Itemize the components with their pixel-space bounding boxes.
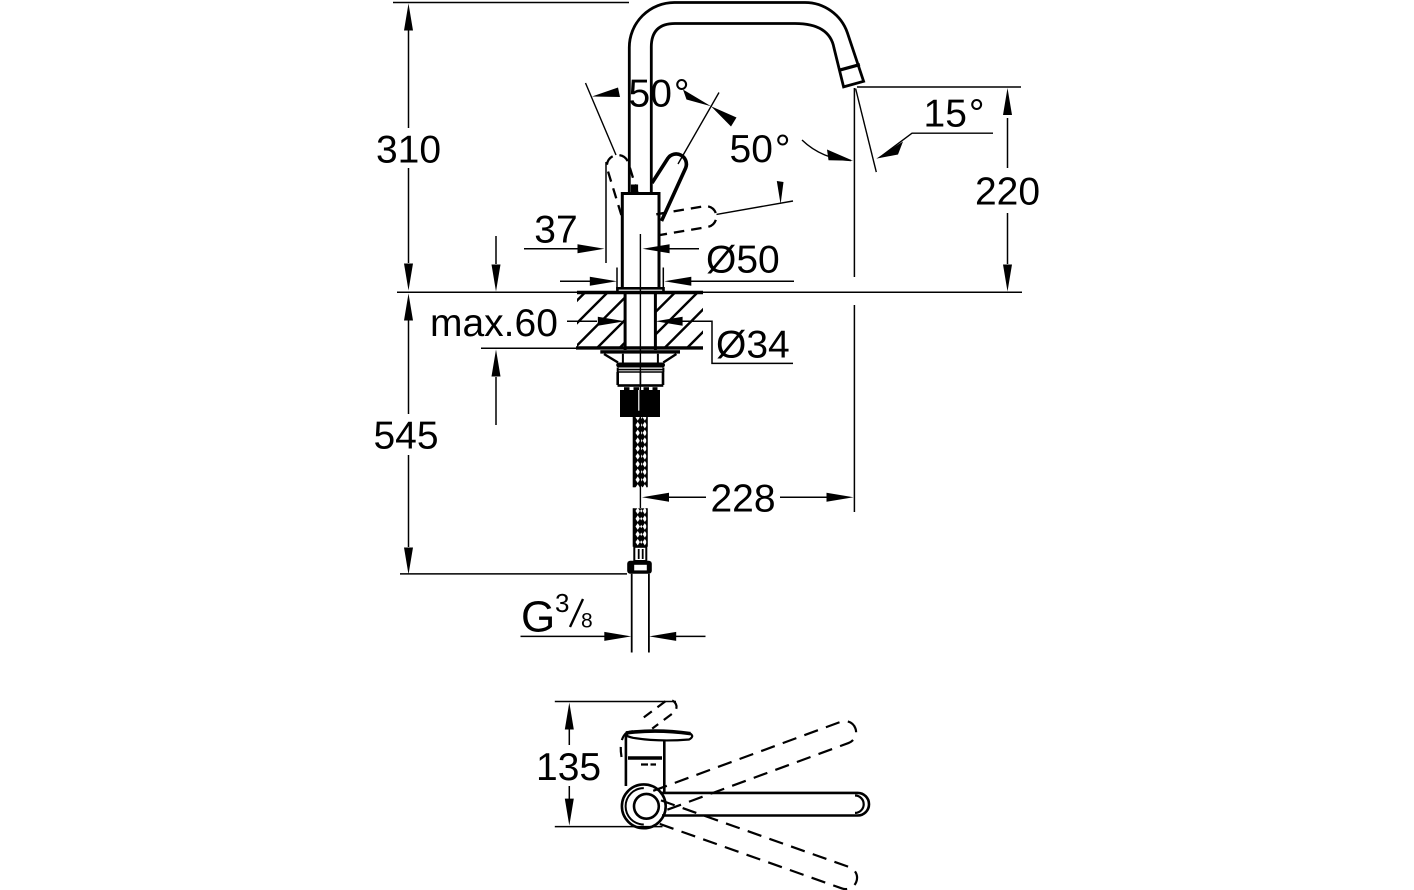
svg-text:15°: 15° bbox=[924, 92, 985, 135]
top view spout arm dashed swivel up position bbox=[653, 718, 859, 812]
top view spout hub circles bbox=[622, 784, 666, 828]
svg-text:220: 220 bbox=[975, 171, 1040, 214]
top view spout arm, solid bbox=[660, 793, 869, 816]
dimension max.60 counter thickness arrows bbox=[492, 236, 501, 425]
svg-text:310: 310 bbox=[376, 129, 441, 172]
angle 50 degrees handle swing left annotation bbox=[586, 83, 737, 164]
dimension line for G3/8 thread bbox=[521, 632, 706, 641]
top view dashed swung lever bbox=[621, 700, 677, 757]
svg-text:228: 228 bbox=[710, 478, 775, 521]
vertical center line of faucet axis bbox=[639, 234, 641, 508]
braided supply hose lower section bbox=[634, 508, 648, 547]
threaded shank through counter bbox=[625, 293, 655, 351]
svg-text:Ø50: Ø50 bbox=[706, 239, 780, 282]
mounting nut bbox=[618, 372, 664, 390]
braided supply hose upper section bbox=[634, 417, 648, 487]
hose end nut G3/8 bbox=[627, 561, 652, 574]
dimension 545 vertical with arrows bbox=[400, 294, 627, 575]
dimension 135 top view with arrows bbox=[555, 702, 676, 827]
svg-text:3: 3 bbox=[555, 588, 569, 618]
angle 50 degrees handle swing down annotation bbox=[717, 181, 794, 214]
dimension 220 spout height bbox=[857, 87, 1021, 292]
dimension 310 vertical with arrows bbox=[393, 3, 629, 291]
top view spout arm dashed swivel down position bbox=[653, 800, 860, 890]
svg-text:max.60: max.60 bbox=[430, 302, 558, 345]
dimension 228 spout reach bbox=[642, 88, 854, 512]
svg-text:545: 545 bbox=[373, 415, 438, 458]
lever handle, dashed 50-degree swung-left position bbox=[604, 152, 642, 215]
svg-text:135: 135 bbox=[536, 746, 601, 789]
svg-text:Ø34: Ø34 bbox=[716, 324, 790, 367]
label G3/8 bbox=[521, 588, 593, 642]
countertop cross-section hatching bbox=[577, 294, 703, 347]
top view lever paddle oval bbox=[626, 731, 692, 740]
faucet body cylinder on counter bbox=[617, 185, 663, 293]
svg-text:50°: 50° bbox=[730, 128, 791, 171]
svg-text:37: 37 bbox=[534, 208, 577, 251]
dimension diameter 34 shank with leader bbox=[567, 317, 793, 364]
hose ferrule connector bbox=[634, 547, 646, 561]
svg-text:8: 8 bbox=[581, 610, 593, 633]
lever handle, dashed 50-degree lowered-right position bbox=[654, 204, 718, 235]
spout tube of faucet, U-shaped with aerator tip bbox=[629, 3, 863, 194]
hose end tube bbox=[632, 574, 649, 653]
threaded shank end, solid black bbox=[620, 390, 660, 417]
angle 15 degrees outlet annotation bbox=[802, 89, 993, 173]
base washer and cone below counter bbox=[600, 350, 680, 372]
dimension 37 lever offset bbox=[524, 162, 699, 263]
dimension diameter 50 base flange bbox=[560, 268, 794, 291]
lever handle, solid (normal position) bbox=[652, 154, 686, 221]
countertop section lines bbox=[397, 292, 1022, 348]
svg-text:G: G bbox=[521, 593, 555, 642]
svg-text:50°: 50° bbox=[629, 73, 690, 116]
top view faucet body outline bbox=[626, 732, 664, 793]
